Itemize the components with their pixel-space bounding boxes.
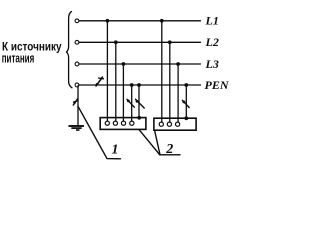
terminal T3 (L3 supply)	[75, 62, 79, 66]
svg-text:питания: питания	[2, 51, 35, 65]
box1 terminal d	[130, 121, 134, 125]
wire drop group1 L1	[106, 21, 108, 121]
box2 terminal a	[159, 122, 163, 126]
wire drop group2 PEN	[185, 85, 187, 118]
detachable-link slash on grounding conductor	[73, 99, 77, 105]
leader line from box2 to label 2	[155, 130, 160, 154]
box1 terminal b	[113, 121, 117, 125]
brace (supply side)	[67, 12, 73, 88]
wire L2 bus	[79, 41, 201, 43]
svg-text:L3: L3	[205, 57, 219, 71]
junction dot group1 PE at box	[137, 116, 141, 120]
terminal T4 (PEN supply)	[75, 83, 79, 87]
junction dot group2 L1	[160, 19, 164, 23]
wire L3 bus	[79, 63, 201, 65]
underline of label 2	[160, 154, 181, 156]
terminal T2 (L2 supply)	[75, 40, 79, 44]
junction dot group1 PEN-N	[130, 83, 134, 87]
wire drop group2 L2	[169, 42, 171, 122]
switchboard box 1 (left consumer)	[100, 118, 146, 130]
junction dot group2 L2	[168, 40, 172, 44]
wire drop group2 L1	[161, 21, 163, 122]
svg-text:2: 2	[165, 142, 173, 157]
box2 terminal b	[167, 122, 171, 126]
leader line to label 1	[78, 106, 121, 159]
box2 terminal c	[176, 122, 180, 126]
svg-text:PEN: PEN	[205, 78, 230, 92]
detachable-link slash on group2 PEN drop	[182, 100, 189, 107]
junction dot group2 PEN top	[184, 83, 188, 87]
box1 terminal a	[105, 121, 109, 125]
detachable-link slash on PEN bus	[96, 77, 104, 86]
terminal T1 (L1 supply)	[75, 19, 79, 23]
wire drop group2 L3	[177, 64, 179, 122]
junction dot group1 L3	[122, 62, 126, 66]
source label "К источнику питания"	[2, 39, 62, 65]
wire drop group1 L2	[115, 42, 117, 121]
wire L1 bus	[79, 20, 201, 22]
junction dot group1 L1	[106, 19, 110, 23]
wire PEN bus	[79, 84, 201, 86]
junction dot group2 L3	[176, 62, 180, 66]
box1 terminal c	[121, 121, 125, 125]
grounding conductor wire	[77, 86, 79, 125]
svg-text:1: 1	[112, 143, 119, 158]
junction dot group1 L2	[114, 40, 118, 44]
ground electrode symbol	[69, 126, 85, 130]
wire drop group1 PEN-N	[131, 85, 133, 121]
wire drop group1 L3	[122, 64, 124, 121]
wire drop group1 PE bond	[138, 85, 140, 118]
detachable-link slash on group1 PE drop	[136, 99, 145, 108]
detachable-link slash on group1 N drop	[127, 99, 134, 107]
svg-text:L2: L2	[205, 35, 219, 49]
switchboard box 2 (right consumer)	[154, 118, 196, 130]
svg-text:L1: L1	[205, 14, 219, 28]
leader line from box1 to label 2	[139, 130, 160, 155]
junction dot group1 PE top	[137, 83, 141, 87]
junction dot group2 PEN at box	[184, 116, 188, 120]
